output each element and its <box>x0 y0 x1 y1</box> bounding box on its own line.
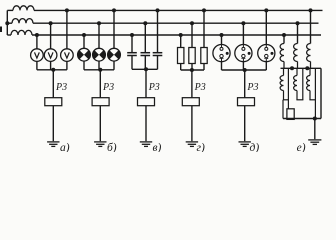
VT primary winding W2 <box>294 44 298 62</box>
node resistor junction <box>190 68 194 72</box>
lamp HL1 <box>78 48 91 61</box>
wire capacitor C1 bottom lead <box>131 56 133 70</box>
voltmeter PV3 <box>61 49 74 62</box>
resistor R2 <box>189 48 195 64</box>
wire resistor common <box>181 69 204 71</box>
node phase tap lamp HL1 <box>82 33 86 37</box>
wire to relay д) <box>244 70 246 98</box>
VT primary winding W3 <box>307 44 311 62</box>
wire drop to resistor R2 <box>191 23 193 47</box>
relay P3 box д) <box>238 98 255 106</box>
ground б) <box>94 141 106 143</box>
svg-text:Р3: Р3 <box>148 82 160 93</box>
wire drop to capacitor C3 <box>157 10 159 52</box>
neon lamp VL3 <box>258 45 275 62</box>
svg-text:г): г) <box>197 142 205 152</box>
node phase tap neon VL3 <box>264 8 268 12</box>
svg-text:Р3: Р3 <box>194 82 206 93</box>
wire VT secondary w2 return leg <box>302 68 304 100</box>
wire drop to resistor R1 <box>180 35 182 48</box>
neon lamp VL1 <box>213 45 230 62</box>
wire relay to ground б) <box>99 106 101 142</box>
node left tie phase B <box>5 21 9 25</box>
wire drop to lamp HL2 <box>98 23 100 48</box>
svg-text:Р3: Р3 <box>246 82 258 93</box>
node phase tap capacitor C1 <box>130 33 134 37</box>
wire phase A bus <box>7 9 13 11</box>
wire drop to neon VL3 <box>265 10 267 44</box>
node phase tap capacitor C3 <box>156 8 160 12</box>
inductor L2 phase B <box>12 19 33 24</box>
wire VT secondary w1 return leg <box>287 68 289 100</box>
svg-text:е): е) <box>297 142 306 152</box>
wire phase B bus <box>7 22 12 24</box>
wire to relay а) <box>52 70 54 98</box>
capacitor C2 <box>141 52 151 54</box>
node phase tap neon VL2 <box>241 21 245 25</box>
node phase tap resistor R2 <box>190 21 194 25</box>
VT primary winding W1 <box>280 44 284 62</box>
voltmeter PV1 <box>31 49 44 62</box>
wire phase C bus <box>7 34 11 36</box>
wire drop to capacitor C1 <box>131 35 133 53</box>
node phase tap resistor R1 <box>179 33 183 37</box>
wire to relay г) <box>191 70 193 98</box>
wire resistor R3 bottom lead <box>203 64 205 71</box>
wire relay to ground а) <box>52 106 54 142</box>
wire secondary w1 to resistor <box>287 100 289 109</box>
wire neon left leg <box>221 62 223 70</box>
wire drop to neon VL1 <box>221 35 223 45</box>
node capacitor junction <box>144 67 148 71</box>
svg-text:в): в) <box>153 142 162 152</box>
wire drop to neon VL2 <box>242 23 244 44</box>
inductor L1 phase A <box>13 6 34 11</box>
wire drop to resistor R3 <box>203 10 205 47</box>
wire drop to VT primary W3 <box>310 10 312 43</box>
neon lamp VL2 <box>235 45 252 62</box>
wire VT secondary w1 bottom bend <box>283 99 289 101</box>
wire VT secondary w2 bottom bend <box>296 99 303 101</box>
capacitor C1 <box>127 52 137 54</box>
wire drop to VT primary W2 <box>297 23 299 43</box>
inductor L3 phase C <box>11 30 32 35</box>
ground г) <box>186 141 198 143</box>
voltmeter PV2 <box>44 49 57 62</box>
page edge mark <box>0 27 2 33</box>
wire drop to VT primary W1 <box>283 35 285 44</box>
wire voltmeter right leg <box>66 61 68 69</box>
VT secondary winding w1 <box>283 68 285 75</box>
wire resistor R1 bottom lead <box>180 64 182 71</box>
node phase tap resistor R3 <box>202 8 206 12</box>
node phase tap VT primary W1 <box>282 33 286 37</box>
ground e) <box>308 139 321 141</box>
wire to relay в) <box>145 70 147 98</box>
svg-text:а): а) <box>60 142 70 152</box>
svg-text:Р3: Р3 <box>102 82 114 93</box>
ground а) <box>47 141 59 143</box>
wire capacitor C3 bottom lead <box>157 56 159 70</box>
node voltmeter junction <box>51 68 55 72</box>
resistor R3 <box>201 48 207 64</box>
relay P3 box а) <box>45 98 62 106</box>
wire neon middle leg <box>242 62 244 70</box>
wire VT secondary w3 return leg <box>314 68 316 100</box>
node neon junction <box>243 68 247 72</box>
resistor Rd in open delta <box>287 109 294 120</box>
lamp HL3 <box>108 48 121 61</box>
node phase tap VT primary W3 <box>309 8 313 12</box>
wire left bus tie <box>6 10 8 35</box>
wire to relay б) <box>99 70 101 98</box>
wire voltmeter left leg <box>36 61 38 69</box>
relay P3 box б) <box>92 98 109 106</box>
wire voltmeter common <box>37 69 67 71</box>
capacitor C3 <box>153 52 163 54</box>
VT secondary winding w3 <box>309 68 311 75</box>
node phase tap capacitor C2 <box>143 21 147 25</box>
wire relay to ground д) <box>244 106 246 142</box>
wire secondary w3 right leg down <box>314 100 316 119</box>
wire capacitor C2 bottom lead <box>144 56 146 70</box>
wire open delta bottom <box>283 118 321 120</box>
node phase tap lamp HL2 <box>97 21 101 25</box>
wire VT secondary w3 bottom bend <box>309 99 316 101</box>
relay P3 box в) <box>138 98 155 106</box>
ground д) <box>239 141 251 143</box>
node phase tap voltmeter PV1 <box>35 33 39 37</box>
node lamp junction <box>98 68 102 72</box>
svg-text:д): д) <box>250 142 260 152</box>
wire lamp middle leg <box>98 61 100 70</box>
node open delta ground junction <box>313 117 317 121</box>
wire relay to ground г) <box>191 106 193 142</box>
wire secondary w1 left leg down <box>282 100 284 119</box>
node VT rail junction 2 <box>305 66 309 70</box>
wire lamp right leg <box>113 61 115 70</box>
wire to ground e) <box>314 119 316 140</box>
node phase tap neon VL1 <box>220 33 224 37</box>
wire relay to ground в) <box>145 106 147 142</box>
wire lamp common <box>84 69 114 71</box>
VT secondary winding w2 <box>296 68 298 75</box>
wire VT right vertical <box>320 68 322 118</box>
svg-text:Р3: Р3 <box>55 82 67 93</box>
wire drop to voltmeter PV2 <box>50 23 52 49</box>
ground в) <box>140 141 152 143</box>
wire resistor R2 bottom lead <box>191 64 193 71</box>
wire neon common <box>222 69 267 71</box>
wire lamp left leg <box>83 61 85 70</box>
wire drop to lamp HL1 <box>83 35 85 48</box>
node phase tap voltmeter PV3 <box>65 8 69 12</box>
resistor R1 <box>178 48 184 64</box>
node phase tap VT primary W2 <box>296 21 300 25</box>
wire capacitor common <box>132 68 158 70</box>
wire drop to capacitor C2 <box>144 23 146 53</box>
svg-text:б): б) <box>107 142 117 152</box>
wire VT common rail <box>281 67 322 69</box>
node VT rail junction 1 <box>290 66 294 70</box>
node phase tap lamp HL3 <box>112 8 116 12</box>
wire drop to lamp HL3 <box>113 10 115 48</box>
lamp HL2 <box>93 48 106 61</box>
wire voltmeter middle leg <box>50 61 52 69</box>
node phase tap voltmeter PV2 <box>49 21 53 25</box>
wire drop to voltmeter PV3 <box>66 10 68 48</box>
relay P3 box г) <box>182 98 199 106</box>
wire neon right leg <box>265 62 267 70</box>
wire drop to voltmeter PV1 <box>36 35 38 49</box>
